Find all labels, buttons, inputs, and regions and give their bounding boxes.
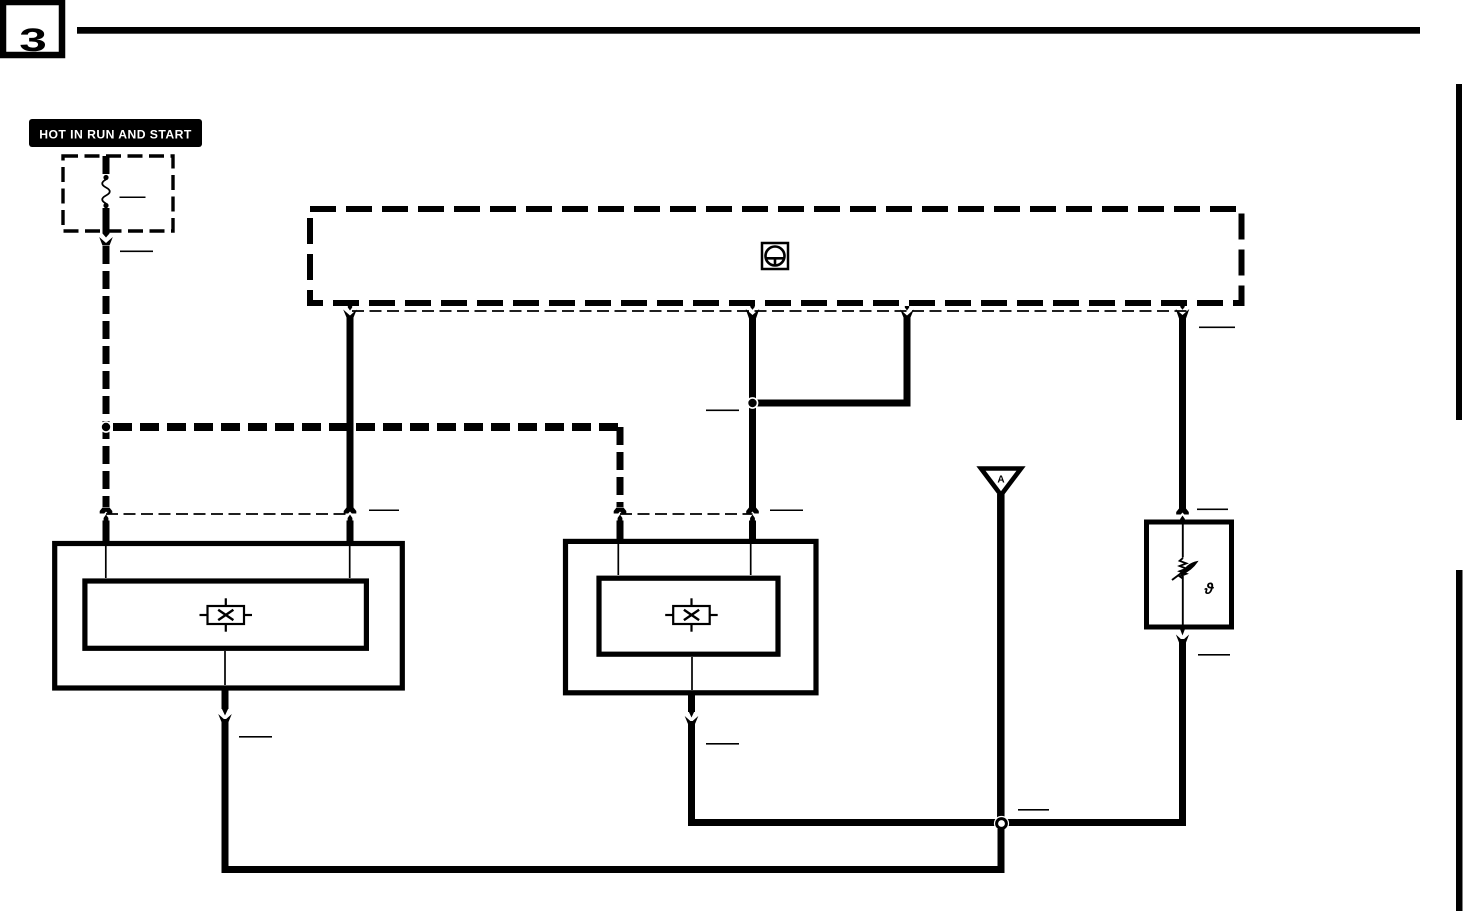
connector arrow below fuse	[99, 237, 113, 246]
sensor bottom pin tip and arrow	[1176, 630, 1189, 643]
junction label line	[706, 410, 739, 412]
splice reference triangle A	[981, 469, 1021, 496]
horn switch module box (dashed)	[310, 209, 1242, 303]
wire module to sensor	[1176, 309, 1190, 515]
dashed branch wire vertical drop	[617, 427, 624, 507]
left horn outer box	[55, 544, 403, 689]
svg-text:ϑ: ϑ	[1204, 581, 1215, 598]
ground wire left horn	[225, 719, 1001, 870]
left horn ground stub and arrow	[218, 688, 232, 722]
left horn internal pin wires	[105, 546, 107, 578]
sensor top pin tip	[1180, 516, 1185, 523]
left horn connector dashed line	[106, 513, 350, 515]
module pin 1	[348, 306, 352, 311]
middle horn connector dashed line	[620, 513, 753, 515]
left horn exit label line	[239, 736, 272, 738]
sensor bottom label line	[1198, 654, 1230, 656]
module pin 3	[905, 306, 909, 311]
temperature sensor box	[1147, 522, 1232, 627]
middle horn ground stub and arrow	[685, 694, 699, 724]
label HOT IN RUN AND START	[29, 119, 202, 147]
left horn sounder symbol	[200, 598, 253, 631]
module connector dashed line	[352, 310, 1188, 312]
middle horn outer box	[566, 541, 817, 692]
middle horn connector label line	[770, 510, 803, 512]
left horn pin tips	[104, 515, 109, 522]
left horn inner box	[85, 581, 367, 648]
bottom wire left corner fill	[222, 866, 1005, 873]
middle horn sounder symbol	[665, 598, 718, 631]
fuse box (dashed)	[63, 156, 173, 231]
sensor internal lead bottom	[1182, 576, 1184, 627]
junction dot on dashed wire	[100, 421, 112, 433]
wire module to middle horn	[746, 309, 760, 514]
wire label line below fuse	[120, 251, 153, 253]
left horn connector label line	[369, 510, 399, 512]
dashed power wire lower flare arrow	[100, 508, 113, 514]
connector ring at splice	[994, 816, 1009, 831]
module pin 2	[750, 306, 754, 310]
ground wire middle horn to right	[692, 721, 1187, 823]
module pin 4	[1180, 306, 1184, 310]
svg-text:3: 3	[19, 22, 47, 58]
page number box "3"	[3, 2, 62, 58]
steering wheel icon	[762, 243, 788, 269]
dashed branch wire horizontal to middle horn	[113, 423, 620, 431]
top rule	[77, 27, 1420, 34]
junction dot pin2/pin3 wires	[747, 397, 759, 409]
middle horn exit label line	[706, 743, 739, 745]
middle horn pin tips	[618, 515, 623, 522]
variable resistor element	[1172, 558, 1198, 580]
sensor internal lead top	[1182, 522, 1184, 558]
wire splice down to bottom run	[998, 829, 1005, 870]
right margin bar upper	[1456, 84, 1462, 420]
wire sensor to ground run	[1179, 639, 1186, 826]
dashed branch flare arrow	[614, 508, 627, 514]
wire from triangle A down	[997, 494, 1005, 820]
fuse F1 element	[102, 156, 110, 238]
wire label line right top	[1199, 327, 1235, 329]
dashed power wire from fuse down	[103, 246, 110, 507]
svg-text:A: A	[997, 475, 1004, 486]
splice label line	[1018, 809, 1049, 811]
right margin bar lower	[1456, 570, 1463, 911]
wire module pin3 jog to pin2 wire	[753, 310, 914, 404]
middle horn inner box	[599, 578, 778, 654]
svg-text:HOT IN RUN AND START: HOT IN RUN AND START	[39, 128, 192, 142]
sensor top label line	[1197, 509, 1228, 511]
wire module to left horn	[343, 310, 357, 514]
middle horn internal pin wires	[617, 544, 619, 575]
fuse value label line	[120, 197, 146, 199]
